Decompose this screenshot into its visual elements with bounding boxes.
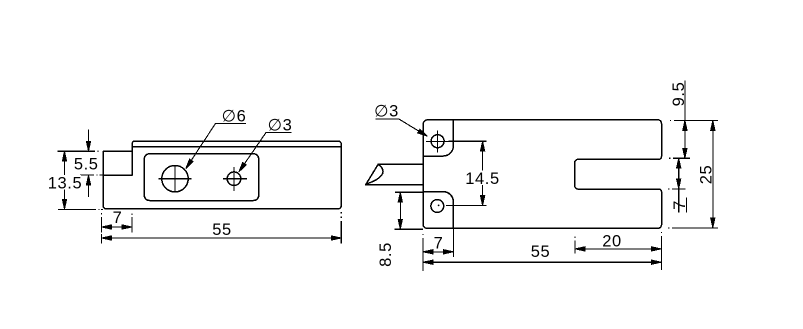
dim 7 (slot) text underline [685,198,687,213]
svg-text:9.5: 9.5 [670,82,688,107]
terminal blade bottom edge [366,184,423,186]
svg-text:55: 55 [531,243,551,261]
dim 55 left extension line [101,234,103,244]
top mounting boss internal edge [423,120,453,156]
dim 7 line [102,226,132,228]
dim 14.5 top extension line [449,140,487,142]
label D3 (right view) leader [376,119,427,136]
dim 7 right extension line [131,214,133,233]
terminal blade curved facet [367,165,383,184]
body top inner edge line [132,146,341,148]
dim 20 left arrowhead [575,247,585,251]
dim 7 (boss) left extension line [422,234,424,271]
dim 8.5 top extension line (boss top edge extended) [395,191,423,193]
label D3 leader [240,133,292,172]
dim 55 left arrowhead [102,236,112,240]
dim 7 (slot) bottom arrowhead [677,179,681,189]
dim 5.5 top extension line [58,150,99,152]
dim 5.5 lower extension (dash-dot) [80,174,103,176]
dim 25 bottom arrowhead [711,218,715,228]
dim 55 (right view) right arrowhead [651,260,661,264]
top hole circle D3 [431,135,444,148]
body step vertical edge [131,147,133,175]
svg-text:14.5: 14.5 [465,170,500,188]
plate outline with U slot [423,120,662,229]
dim 55 right arrowhead [331,236,341,240]
svg-text:13.5: 13.5 [48,175,83,193]
dim 8.5 bottom arrowhead [398,219,402,229]
dim 14.5 text [464,171,502,186]
dim 7 right arrowhead [122,225,132,229]
label D3 arrowhead [239,163,246,173]
top hole crosshair [426,131,450,153]
dim 55 (right view) line [423,261,661,263]
dim 7 (slot) line [678,158,680,212]
dim 55 (right view) left arrowhead [423,260,433,264]
dim 13.5 bottom extension line [58,208,103,210]
svg-text:25: 25 [697,165,715,185]
dim 7 (boss) left arrowhead [423,250,433,254]
dim 14.5 bottom extension line [446,205,487,207]
dim 8.5 top arrowhead [398,192,402,202]
dim 20 right arrowhead [651,247,661,251]
label D6 leader [187,124,247,168]
dim 25 top arrowhead [711,120,715,130]
dim 13.5 text [49,175,81,190]
dim 5.5 upper arrowhead [86,141,90,151]
svg-text:∅6: ∅6 [222,108,247,126]
dim 7 (boss) right extension line [453,203,455,257]
tab bottom internal edge [103,174,132,176]
dim 7 (slot) top arrowhead [677,158,681,168]
dim 20 line [575,248,661,250]
terminal blade tip bevel [366,164,379,185]
hole circle D3 [227,172,241,186]
dim 9.5 line [684,81,686,159]
svg-text:20: 20 [602,233,622,251]
dim 14.5 bottom arrowhead [480,196,484,206]
bottom hole circle [431,200,444,213]
svg-text:7: 7 [434,235,444,253]
svg-text:7: 7 [671,200,689,210]
dim 25 line [712,120,714,227]
bottom hole center dot [438,205,440,207]
svg-text:∅3: ∅3 [268,117,293,135]
label D3 (right view) arrowhead [418,129,428,136]
dim 14.5 line [482,141,484,205]
dim 5.5 lower arrowhead [86,175,90,185]
svg-text:∅3: ∅3 [374,103,399,121]
dim 7 (boss) right arrowhead [444,250,454,254]
dim 14.5 top arrowhead [480,141,484,151]
dim 25 bottom extension line [668,227,718,229]
svg-text:7: 7 [113,209,123,227]
dim 13.5 top arrowhead [62,151,66,161]
body outline left view [103,141,341,209]
hole circle D6 [162,166,188,192]
dim 5.5 upper arrow line [88,129,90,151]
dim 7 (slot) extension line (slot bottom) [668,188,685,190]
svg-text:8.5: 8.5 [377,242,395,267]
dim 13.5 bottom arrowhead [62,199,66,209]
svg-text:55: 55 [212,221,232,239]
dim 7 (boss) line [423,251,454,253]
dim 5.5 lower arrow line [88,175,90,197]
dim 7 left extension line [101,213,103,232]
svg-text:5.5: 5.5 [74,155,99,173]
dim 8.5 line [399,192,401,229]
dim 9.5 bottom extension line (slot top) [669,157,690,159]
dim 13.5 line [64,151,66,209]
dim 9.5 top extension line (shared with 25) [670,119,718,121]
dim 9.5 top arrowhead [683,120,687,130]
bottom mounting boss internal edge [423,192,453,229]
dim 8.5 bottom extension line [395,228,424,230]
label D6 arrowhead [186,159,193,169]
dim 20 left extension line (dash-dot) [574,236,576,253]
dim 9.5 bottom arrowhead [683,148,687,158]
inner rounded pocket [144,154,258,201]
terminal blade top edge [378,163,423,165]
dim 55 right extension line [340,212,342,243]
hole D3 crosshair [223,167,247,191]
dim 55 line [102,237,342,239]
dim 55 (right view) right extension line [660,232,662,270]
dim 7 left arrowhead [102,225,112,229]
hole D6 crosshair [159,165,192,192]
